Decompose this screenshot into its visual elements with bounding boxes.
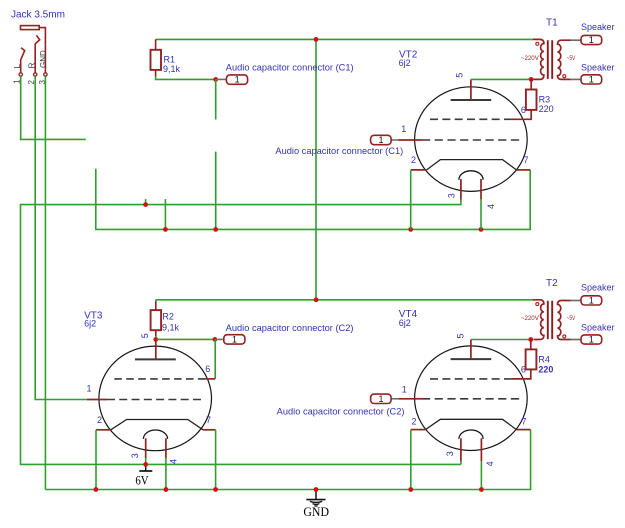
tube VT4 envelope [415, 346, 528, 451]
jack J1 contact R [35, 35, 40, 72]
svg-text:220: 220 [538, 364, 553, 374]
svg-text:5: 5 [140, 333, 150, 338]
speaker connector SP1 [571, 39, 581, 41]
tube VT2 grid2 pin6 [430, 118, 512, 120]
tube VT2 plate [451, 99, 492, 101]
svg-text:Speaker: Speaker [581, 62, 615, 72]
speaker connector SP3 [571, 300, 581, 302]
svg-text:Audio capacitor connector (C1): Audio capacitor connector (C1) [226, 62, 354, 72]
wire jack pin3 GND down [44, 76, 46, 489]
wire main vertical supply [315, 39, 317, 299]
speaker connector SP4 [571, 339, 581, 341]
jack J1 pin names L R GND [13, 50, 48, 68]
wire C2 down to VT3 pin6 [214, 339, 216, 379]
tube VT3 grid2 pin6 [114, 378, 205, 380]
svg-text:7: 7 [522, 417, 527, 427]
svg-text:R2: R2 [162, 311, 174, 321]
svg-text:Audio capacitor connector (C1): Audio capacitor connector (C1) [275, 146, 403, 156]
svg-text:Audio capacitor connector (C2): Audio capacitor connector (C2) [277, 407, 405, 417]
supply 6V [145, 464, 147, 471]
connector C1 VT2 [391, 139, 398, 141]
svg-text:~220V: ~220V [521, 315, 540, 322]
resistor R2 [155, 300, 157, 302]
wire C1 stub down [215, 79, 217, 119]
svg-text:R: R [27, 62, 36, 68]
svg-text:T2: T2 [546, 278, 558, 289]
svg-text:~220V: ~220V [521, 55, 540, 62]
svg-text:2: 2 [411, 155, 416, 165]
svg-text:1: 1 [589, 296, 594, 306]
svg-text:1: 1 [379, 394, 384, 404]
tube VT4 plate [451, 358, 492, 360]
wire bus line2 [96, 169, 530, 230]
jack J1 pin circles [19, 73, 47, 76]
jack J1 plug body [21, 26, 46, 73]
tube VT3 grid1 pin1 [107, 399, 201, 401]
svg-text:1: 1 [235, 75, 240, 85]
svg-text:4: 4 [168, 459, 178, 464]
node GND rail junction c [213, 487, 218, 492]
svg-text:Speaker: Speaker [581, 323, 615, 333]
node C1 junction [213, 77, 218, 82]
svg-text:9,1k: 9,1k [163, 64, 181, 74]
node GND rail junction f [479, 487, 484, 492]
node top line junction [314, 37, 319, 42]
node GND rail junction d [314, 487, 319, 492]
tube VT2 envelope [415, 87, 528, 192]
svg-text:GND: GND [39, 50, 48, 68]
svg-text:1: 1 [379, 135, 384, 145]
tube VT4 heater [459, 430, 483, 439]
wire top supply line [156, 38, 533, 40]
node bus2 junction d [479, 227, 484, 232]
tube VT4 grid2 pin6 [430, 378, 512, 380]
svg-text:2: 2 [412, 417, 417, 427]
node bus2 junction c [408, 227, 413, 232]
tube VT3 heater [143, 430, 167, 439]
svg-text:1: 1 [401, 124, 406, 134]
svg-text:1: 1 [87, 384, 92, 394]
svg-text:6j2: 6j2 [399, 58, 411, 68]
svg-text:Jack 3.5mm: Jack 3.5mm [11, 10, 65, 21]
tube VT4 cathode [425, 419, 516, 429]
svg-text:1: 1 [402, 384, 407, 394]
node T1 primary bottom junction [529, 77, 534, 82]
svg-text:1: 1 [589, 35, 594, 45]
tube VT2 pin7 [516, 169, 530, 171]
svg-text:~5V: ~5V [567, 315, 576, 322]
svg-text:7: 7 [524, 155, 529, 165]
jack J1 pin numbers 1 2 3 [13, 79, 48, 85]
wire GND bottom rail [45, 430, 530, 490]
connector C2 VT3 [216, 338, 224, 340]
svg-text:3: 3 [445, 451, 455, 456]
tube VT2 heater [459, 171, 483, 180]
svg-text:6: 6 [521, 364, 526, 374]
tube VT3 plate [135, 358, 176, 360]
node bus2 junction a [163, 227, 168, 232]
connector C2 VT4 [391, 398, 398, 400]
wire R1 bottom to C1 [156, 76, 216, 79]
svg-text:5: 5 [455, 333, 465, 338]
wire R2 bottom [155, 336, 157, 339]
svg-text:9,1k: 9,1k [162, 322, 180, 332]
speaker connector SP2 [571, 78, 581, 80]
svg-text:6: 6 [205, 364, 210, 374]
node bus1 junction [143, 202, 148, 207]
wire jack pin2 R net to VT3 grid [35, 76, 87, 399]
svg-text:7: 7 [206, 415, 211, 425]
tube VT3 envelope [99, 346, 212, 451]
tube VT4 grid1 pin1 [422, 398, 520, 400]
svg-text:6V: 6V [135, 472, 149, 487]
wire VT3 pin5 to C2 [156, 338, 215, 340]
wire mid stub to bus2 [215, 152, 217, 230]
node C2 junction [213, 337, 218, 342]
svg-text:R4: R4 [538, 354, 550, 364]
svg-text:Audio capacitor connector (C2): Audio capacitor connector (C2) [226, 323, 354, 333]
node GND rail junction e [408, 487, 413, 492]
svg-text:4: 4 [486, 204, 496, 209]
svg-text:Speaker: Speaker [581, 22, 615, 32]
svg-text:5: 5 [454, 73, 464, 78]
wire jack pin1 L net [21, 76, 86, 139]
svg-text:220: 220 [539, 104, 554, 114]
node T2 primary bottom junction [528, 337, 533, 342]
svg-text:1: 1 [232, 335, 237, 345]
connector C1 top [217, 78, 227, 80]
svg-text:R3: R3 [539, 94, 551, 104]
tube VT2 cathode [427, 160, 517, 170]
wire VT2 pin5 to T1 [471, 78, 531, 80]
svg-text:6: 6 [521, 105, 526, 115]
svg-text:GND: GND [303, 504, 329, 519]
tube VT3 pin2 [96, 429, 111, 431]
node GND rail junction a [94, 487, 99, 492]
jack J1 contact L [21, 48, 25, 73]
wire stub above bus1 [145, 199, 147, 205]
svg-text:4: 4 [485, 461, 495, 466]
node GND rail junction b [164, 487, 169, 492]
svg-text:6j2: 6j2 [399, 318, 411, 328]
svg-text:Speaker: Speaker [581, 283, 615, 293]
node R2 line junction [314, 297, 319, 302]
ground symbol [315, 490, 317, 500]
resistor R4 [530, 340, 532, 350]
tube VT3 pin7 [203, 429, 216, 431]
tube VT3 cathode [111, 420, 203, 430]
svg-text:1: 1 [589, 335, 594, 345]
svg-text:~5V: ~5V [567, 55, 576, 62]
svg-text:6j2: 6j2 [84, 319, 96, 329]
tube VT4 pin7 [516, 429, 530, 431]
wire R2 line to T2 [156, 299, 533, 301]
svg-text:2: 2 [97, 415, 102, 425]
tube VT4 pin2 [411, 429, 426, 431]
svg-text:T1: T1 [546, 18, 558, 29]
node bus2 junction b [213, 227, 218, 232]
tube VT2 pin2 [411, 169, 427, 171]
svg-text:L: L [13, 63, 22, 68]
node VT3 pin5 junction [153, 337, 158, 342]
wire bus line1 6V [21, 200, 461, 465]
wire VT4 pin5 to T2 [471, 339, 531, 341]
tube VT2 grid1 pin1 [422, 139, 520, 141]
resistor R3 [530, 79, 532, 89]
svg-text:1: 1 [589, 75, 594, 85]
wire stub crossing to bus2 [164, 199, 166, 229]
resistor R1 [155, 39, 157, 49]
svg-text:3: 3 [447, 193, 457, 198]
svg-text:3: 3 [130, 453, 140, 458]
